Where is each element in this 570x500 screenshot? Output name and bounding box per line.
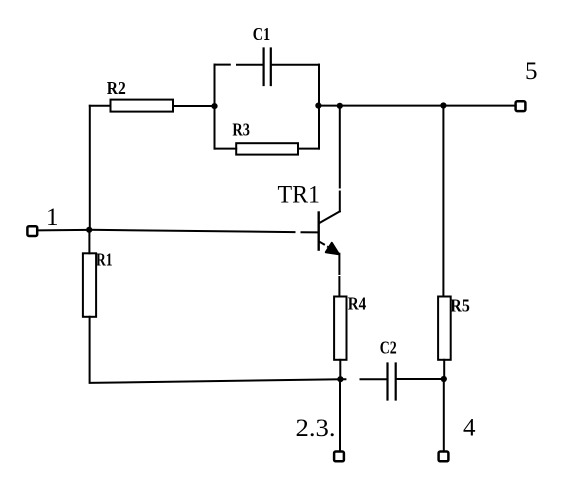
- svg-text:R5: R5: [450, 295, 470, 315]
- wire loop left vertical: [214, 65, 216, 149]
- wire C2 left stubs: [340, 378, 386, 380]
- svg-text:R1: R1: [96, 250, 113, 270]
- wire node F to terminal 2.3: [339, 379, 341, 452]
- wire loop right vertical: [318, 65, 320, 149]
- node C junction: [315, 103, 321, 109]
- wire collector vertical: [339, 106, 341, 212]
- svg-text:R2: R2: [107, 78, 126, 98]
- terminal 1: [27, 226, 37, 236]
- wire emitter vertical: [338, 254, 340, 297]
- svg-text:R4: R4: [348, 294, 367, 314]
- svg-text:4: 4: [463, 415, 476, 442]
- wire R5 top: [442, 106, 444, 297]
- terminal 4: [439, 452, 449, 462]
- svg-text:1: 1: [46, 204, 59, 231]
- node G junction: [441, 376, 447, 382]
- wire R1 bottom and bottom rail: [90, 317, 341, 383]
- resistor R4: [334, 297, 346, 360]
- transistor TR1: [319, 211, 340, 254]
- wire R3 left stub: [215, 148, 237, 150]
- node F junction: [337, 376, 343, 382]
- wire R5 bottom: [443, 360, 445, 379]
- resistor R1: [83, 253, 96, 316]
- wire node G to terminal 4: [443, 379, 445, 452]
- wire R2 left stub: [90, 105, 111, 107]
- wire loop top right segment: [272, 64, 319, 66]
- resistor R2: [111, 100, 174, 112]
- node A junction: [86, 227, 92, 233]
- node D junction: [337, 103, 343, 109]
- resistor R3: [236, 143, 298, 154]
- svg-text:C2: C2: [380, 338, 397, 358]
- wire base: node A to TR1 base: [89, 230, 318, 233]
- wire main top rail: [319, 105, 514, 107]
- capacitor C2: [388, 364, 396, 400]
- wire R2 right to node B: [173, 105, 215, 107]
- svg-text:5: 5: [525, 58, 538, 85]
- wire R4 bottom: [339, 360, 341, 379]
- svg-text:2.3.: 2.3.: [296, 415, 336, 442]
- node E junction: [440, 102, 446, 108]
- wire C2 right stub: [397, 378, 444, 380]
- resistor R5: [438, 297, 451, 360]
- terminal 5: [516, 101, 526, 111]
- node B junction: [211, 103, 217, 109]
- wire R3 right stub: [298, 148, 319, 150]
- terminal 2.3: [334, 452, 344, 462]
- svg-text:R3: R3: [232, 120, 250, 140]
- svg-text:TR1: TR1: [278, 181, 321, 208]
- wire node A up to R2 level: [89, 106, 91, 230]
- svg-text:C1: C1: [253, 24, 271, 44]
- wire R1 top: [88, 230, 90, 254]
- capacitor C1: [264, 49, 271, 86]
- wire terminal 1 to node A: [38, 229, 87, 232]
- wire loop top left segments: [215, 64, 263, 66]
